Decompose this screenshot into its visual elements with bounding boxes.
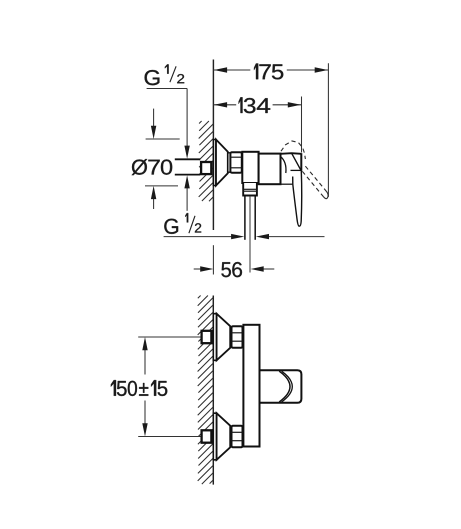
lever blade hanging down [293, 171, 302, 226]
shower hose nipple [244, 196, 246, 240]
label 150±15 [111, 380, 167, 396]
label G 1/2 (shower outlet thread) [164, 219, 178, 234]
wall hatch (top view) [199, 121, 202, 124]
hose axis / extension line for 56 [249, 196, 251, 273]
escutcheon (top view cone) [213, 140, 216, 186]
extension line right of 134 [301, 97, 303, 153]
main body (cartridge housing) [259, 154, 281, 185]
supply pipe behind wall [175, 158, 200, 160]
hex nut (bottom) [232, 426, 243, 448]
dimension Ø70 (escutcheon diameter) extension lines [146, 138, 180, 140]
Ø70 arrows [153, 109, 155, 127]
arrow up to pipe underside [186, 188, 188, 211]
outlet connector below body [243, 183, 257, 196]
escutcheon flange (top) [213, 314, 216, 361]
extension line right of 175 [327, 63, 329, 197]
hex nut (top view) [230, 152, 241, 172]
lever handle dashed (open position) [281, 141, 305, 159]
dimension 175 (wall to lever tip) [213, 69, 250, 71]
lever handle solid (closed position) [280, 152, 301, 155]
wall face line (bottom view) [212, 296, 214, 485]
wall hatch (bottom view) [198, 296, 201, 299]
wall face line (top view) [212, 60, 214, 231]
lever knob (front view) [260, 370, 302, 403]
dashed lever tip [324, 192, 329, 199]
lever edge arcs (front view) [279, 371, 290, 402]
square union nut behind wall (bottom) [202, 430, 212, 442]
hex nut (top) [232, 326, 243, 348]
label G 1/2 (wall supply thread, top) [145, 70, 160, 85]
square union nut behind wall (top) [202, 331, 212, 343]
body bottom edge to blade [281, 183, 293, 185]
leader to hose nipple [164, 236, 232, 238]
ring between cone and nut [228, 153, 231, 172]
faucet body column (front view) [243, 325, 259, 447]
opposite arrow at nipple [269, 236, 325, 238]
extension of wall face for 56 [212, 245, 214, 274]
dimension 134 (wall to lever front face) [213, 104, 236, 106]
escutcheon flange (bottom) [213, 413, 216, 460]
dimension 150±15 extension lines [138, 336, 200, 338]
body sleeve [242, 152, 258, 183]
leader from G1/2 to supply pipe [147, 88, 188, 90]
dimension 150±15 line and arrows [144, 350, 146, 375]
dimension 56 (wall to hose axis) [194, 268, 201, 270]
label Ø70 [132, 159, 173, 175]
square union nut behind wall [201, 162, 211, 174]
